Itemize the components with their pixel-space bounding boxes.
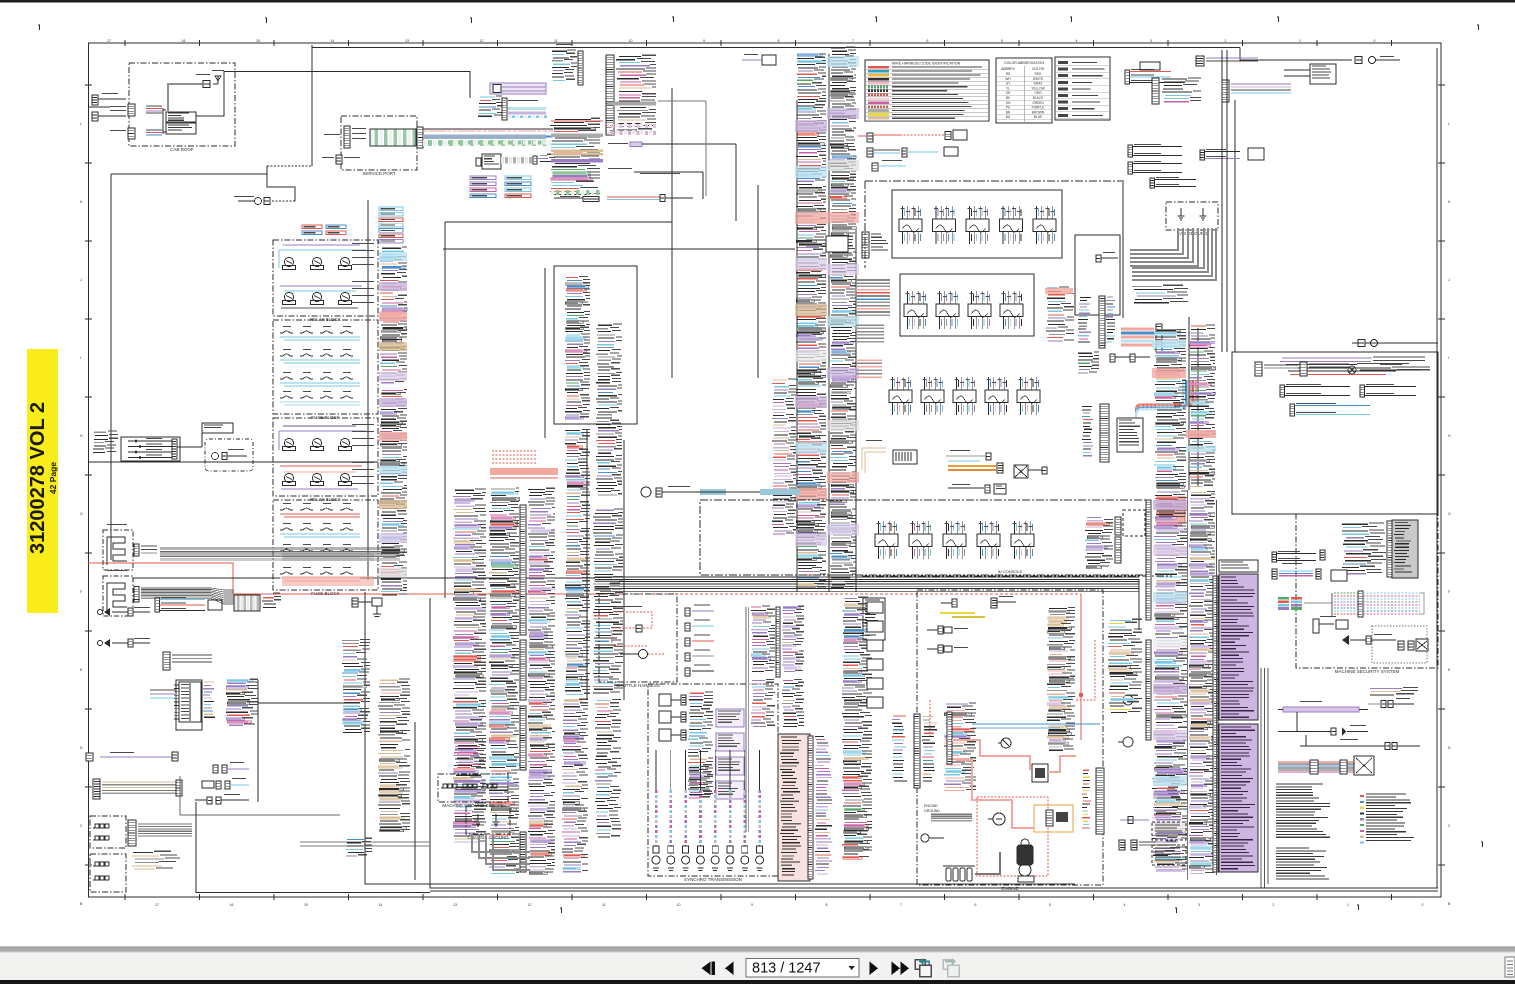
harness column A lower: [457, 744, 484, 767]
toolbar last-page button: [892, 962, 910, 976]
main column 2 spine right: [855, 230, 857, 592]
connector CONN3 service port: [324, 126, 366, 148]
svg-text:C: C: [80, 824, 83, 828]
svg-text:1: 1: [1299, 39, 1301, 43]
relay K4: [283, 292, 296, 304]
wire top-right drop and connector: [1240, 48, 1400, 64]
connector pairs right: [1110, 354, 1150, 362]
svg-text:WH: WH: [1005, 77, 1011, 81]
svg-text:8: 8: [826, 903, 828, 907]
fuse row 6: [280, 523, 360, 537]
main column 2 spine left: [828, 54, 830, 592]
ground strap box 1 left: [90, 816, 126, 848]
wire bottom long route b: [430, 598, 1078, 888]
purple panel upper: [1219, 574, 1258, 720]
connector spine column B: [520, 505, 526, 872]
connector row right box2: [1280, 384, 1416, 397]
diode to ground below fuse: [352, 598, 382, 617]
small rows bottom-left: [132, 851, 180, 869]
wire cross run c: [88, 461, 378, 463]
console region dash-dot box: [700, 500, 1150, 575]
junction block bottom-left: [174, 682, 201, 722]
radio antenna connector: [196, 74, 210, 88]
yellow wire pair engine: [940, 613, 985, 617]
purple panel pin text: [1221, 577, 1255, 869]
connector CONN19: [872, 160, 906, 171]
svg-text:10: 10: [629, 39, 633, 43]
connector bar A: [134, 544, 157, 556]
fuse row 7: [280, 544, 360, 558]
central top column: [550, 118, 600, 198]
connector cluster top-right a: [1125, 62, 1171, 84]
wire row y731 right: [1278, 712, 1368, 736]
connector bar B: [134, 590, 139, 602]
toolbar prev-page button: [725, 962, 734, 976]
right column divider verticals: [1188, 490, 1217, 880]
temp sender: [1118, 737, 1133, 747]
svg-text:J: J: [80, 278, 82, 282]
svg-text:RD: RD: [1006, 72, 1011, 76]
console out cluster: [1085, 510, 1145, 568]
wire right box run: [1360, 364, 1420, 370]
cab roof bundle 1: [146, 106, 162, 113]
connector CONN2 cab roof: [110, 128, 135, 139]
svg-text:SYNCHRO TRANSMISSION: SYNCHRO TRANSMISSION: [684, 877, 742, 882]
security dotted runs: [1363, 593, 1424, 614]
purple panel header: [1219, 560, 1258, 572]
harness bundle to row2: [856, 280, 890, 315]
relay block 1 cyan bus: [279, 245, 366, 268]
wire vertical x258: [257, 680, 259, 802]
engine salmon route 2: [956, 760, 1034, 828]
connector bar tall a: [1078, 296, 1115, 348]
svg-text:FUSE BLOCK: FUSE BLOCK: [311, 415, 340, 420]
wire center vertical c: [757, 185, 759, 378]
svg-text:9: 9: [751, 903, 753, 907]
svg-text:D: D: [1448, 746, 1451, 750]
diagnostic plug symbol: [234, 196, 270, 205]
pink panel main: [778, 734, 810, 881]
relay block 2 purple bus: [279, 426, 366, 450]
harness column fuse-out lower: [380, 389, 407, 595]
gray hatch bundle ecu: [501, 154, 556, 164]
gray wire right from block: [658, 101, 706, 196]
fuse row 4: [280, 391, 360, 405]
wire vertical x624: [623, 440, 625, 700]
svg-text:7: 7: [900, 903, 902, 907]
wire left border feed: [88, 106, 110, 108]
connector bar harness left: [1082, 404, 1109, 462]
harness column D2: [593, 509, 623, 693]
connector unit bl1: [213, 762, 249, 773]
chassis ground studs: [475, 814, 500, 826]
connector cluster top-right b: [1152, 78, 1291, 104]
pink panel spine: [808, 736, 813, 879]
relay block 2 out rows: [352, 424, 374, 484]
in-console label line: [862, 569, 1172, 576]
connector block mid-high: [806, 236, 848, 252]
wire vertical x637: [636, 266, 638, 424]
toolbar page number box: [746, 959, 859, 978]
svg-text:RED: RED: [1035, 72, 1042, 76]
wire left horizontal y174: [111, 173, 267, 175]
purple unit right upper: [1368, 698, 1414, 708]
glow plug battery row: [943, 866, 975, 881]
switch row 3: [889, 377, 1040, 415]
svg-text:GREEN: GREEN: [1032, 101, 1044, 105]
svg-text:BN: BN: [1006, 110, 1011, 114]
starter motor dark: [1017, 839, 1033, 865]
wire rows left of bar: [1045, 287, 1074, 341]
lamp block left: [150, 680, 202, 730]
svg-text:PU: PU: [1006, 106, 1011, 110]
small cluster below right block: [608, 142, 736, 221]
synchro square unit 1: [659, 694, 686, 706]
connector small pair right: [1150, 177, 1196, 188]
synchro square unit 2: [659, 711, 686, 723]
security small blocks: [1398, 639, 1428, 651]
wire cab roof to zone drop: [196, 72, 470, 117]
connector row right mid2: [1200, 148, 1264, 160]
right column A patches: [1153, 500, 1187, 832]
connector CONN17 with wires: [858, 130, 967, 142]
svg-text:B: B: [1448, 902, 1451, 906]
resistor block left: [163, 652, 212, 670]
svg-text:16: 16: [230, 903, 234, 907]
chassis ground box: [466, 806, 510, 840]
fuse block 2 enclosure: [273, 500, 378, 596]
battery cable gray: [975, 852, 1000, 874]
relay K1: [283, 257, 296, 269]
relay K3: [339, 257, 352, 269]
svg-text:I: I: [1448, 356, 1449, 360]
red cyan pair bottom: [607, 195, 693, 202]
svg-text:L: L: [80, 122, 82, 126]
wire vertical x415: [414, 722, 416, 880]
svg-text:9: 9: [703, 39, 705, 43]
svg-text:7: 7: [852, 39, 854, 43]
wire vertical x746: [746, 607, 749, 832]
svg-text:PURPLE: PURPLE: [1032, 106, 1045, 110]
svg-text:K: K: [80, 200, 83, 204]
svg-text:RELAY BLOCK: RELAY BLOCK: [310, 497, 341, 502]
red frame box colA: [1157, 497, 1185, 523]
horn symbol 1: [98, 607, 151, 616]
svg-text:13: 13: [405, 39, 409, 43]
synchro pin tables: [716, 709, 744, 799]
wire zone vertical x312: [311, 45, 313, 166]
engine red dotted route: [930, 640, 1095, 736]
relay block 1 purple bus: [280, 286, 362, 308]
toolbar next-page button: [870, 962, 879, 976]
svg-text:4: 4: [1076, 39, 1078, 43]
ground feed rows: [1132, 285, 1188, 303]
flasher symbol with wire: [641, 486, 726, 497]
connector block top-center right: [606, 55, 656, 135]
wire cluster y169: [608, 168, 703, 199]
ECU box top-center: [476, 154, 501, 169]
service port right connector: [417, 127, 423, 148]
relay block 1 out rows: [352, 243, 374, 303]
svg-text:E: E: [80, 668, 83, 672]
teal wire segment mid: [700, 489, 800, 495]
harness column B right half: [528, 488, 555, 874]
cab ground enclosure: [1166, 202, 1218, 236]
switch row 2 frame: [900, 274, 1034, 336]
relay K2: [311, 257, 324, 269]
fuse row 1: [280, 326, 360, 340]
synchro sensor bank: [652, 750, 764, 871]
wire right long drop: [1234, 100, 1236, 352]
svg-text:H: H: [80, 434, 83, 438]
device cluster right upper: [1284, 64, 1336, 84]
synchro square unit 3: [659, 729, 686, 741]
engine ground label: [924, 804, 940, 813]
wire rows below bar: [1078, 352, 1099, 373]
right side enclosure box: [1232, 352, 1438, 514]
svg-text:14: 14: [379, 903, 383, 907]
svg-text:ENGINE: ENGINE: [924, 804, 938, 808]
stepped switch box B: [103, 570, 133, 616]
legend wire color table: [865, 60, 989, 121]
shuttle red dotted route: [612, 606, 652, 646]
machine ground straps box: [438, 774, 508, 808]
twisted pair harness bend: [1136, 380, 1196, 429]
main column 1 spine: [796, 100, 798, 592]
svg-text:B: B: [80, 902, 83, 906]
relay K6: [339, 292, 352, 304]
border zone tick marks: [80, 39, 1451, 907]
relay K11: [311, 473, 324, 485]
shuttle connector rows: [685, 605, 714, 677]
engine red dotted enclosure: [977, 797, 1048, 876]
svg-text:OR: OR: [1006, 91, 1011, 95]
connector cluster rm1: [1272, 550, 1325, 562]
svg-text:C: C: [1448, 824, 1451, 828]
purple wire engine right: [1120, 767, 1180, 824]
switch row 4 console: [875, 521, 1034, 559]
connector CONN15 cluster: [478, 96, 547, 120]
connector CONN4 mid-left: [155, 597, 222, 612]
svg-text:MACHINE SECURITY SYSTEM: MACHINE SECURITY SYSTEM: [1335, 669, 1400, 674]
service port enclosure box: [341, 116, 417, 176]
svg-text:RELAY BLOCK: RELAY BLOCK: [310, 317, 341, 322]
svg-text:5: 5: [1001, 39, 1003, 43]
connector near border left: [92, 93, 126, 121]
harness column bl-right: [378, 679, 410, 832]
security keypad: [1313, 616, 1348, 633]
fuse row 3: [280, 372, 360, 386]
connector cluster rm2: [1272, 563, 1347, 581]
relay K9: [339, 438, 352, 450]
svg-text:8: 8: [778, 39, 780, 43]
svg-text:YELLOW: YELLOW: [1031, 86, 1044, 90]
synchro connector rows: [688, 692, 713, 795]
harness column D: [596, 324, 622, 495]
svg-text:F: F: [80, 590, 82, 594]
orange harness cluster: [946, 450, 1003, 473]
svg-text:0: 0: [1374, 39, 1376, 43]
shuttle enclosure box: [599, 594, 677, 688]
conn bar left of colA: [1146, 500, 1151, 740]
relay K12: [339, 473, 352, 485]
wire left border long vertical: [110, 174, 112, 560]
legend symbol table: [1055, 57, 1110, 120]
fuse row 5: [280, 503, 360, 517]
wire cross run b: [443, 248, 795, 250]
service port lower connector: [322, 155, 360, 164]
xbox component mid: [1014, 465, 1047, 478]
engine small unit 2: [927, 645, 968, 653]
connector unit bl2: [202, 778, 249, 789]
svg-text:42 Page: 42 Page: [48, 462, 58, 494]
toolbar view-mode icon inactive: [943, 958, 959, 976]
svg-text:G: G: [80, 512, 83, 516]
purple wire run bottom-left: [86, 752, 178, 761]
relay K7: [283, 438, 296, 450]
svg-text:0: 0: [1422, 903, 1424, 907]
ground strap box 2 left: [90, 854, 126, 892]
volume label yellow tab: [27, 349, 58, 613]
svg-text:MACHINE GROUND STRAPS: MACHINE GROUND STRAPS: [442, 803, 503, 808]
notes text block right lower: [1276, 848, 1329, 879]
component stack column: [842, 597, 872, 859]
fuse row 2: [280, 349, 360, 363]
rows right of junction block: [203, 682, 215, 717]
switch row 1 upper: [899, 206, 1056, 244]
relay K8: [311, 438, 324, 450]
wire mid vertical a: [444, 222, 446, 598]
connector CONN13 block: [552, 44, 583, 85]
connector unit bl3: [195, 794, 249, 804]
engine mid column: [1047, 607, 1075, 750]
cab roof junction block: [166, 112, 196, 134]
wire list table right: [1360, 794, 1414, 844]
harness column C mid: [565, 429, 590, 694]
svg-text:GRAY: GRAY: [1034, 82, 1044, 86]
svg-text:CAB ROOF: CAB ROOF: [170, 147, 194, 152]
central column bottom connector: [560, 196, 599, 202]
gray band right block: [607, 102, 656, 106]
wire console trunk bus: [595, 577, 1139, 630]
service port hatched block: [370, 129, 416, 146]
connector CONN1 cab roof: [110, 104, 135, 116]
switch row 1 frame: [892, 190, 1062, 258]
connector bar ground left: [128, 820, 136, 846]
service harness bundle right: [423, 129, 553, 146]
svg-text:BLACK: BLACK: [1033, 96, 1044, 100]
fuel solenoid box: [1034, 805, 1073, 832]
wire vertical x196 low: [196, 802, 430, 893]
ground wire loops gray: [1130, 228, 1216, 280]
svg-text:6: 6: [975, 903, 977, 907]
wire horizontal y815: [180, 776, 340, 815]
wire center-left vertical route: [367, 200, 369, 580]
connector quad rows left: [121, 437, 180, 461]
service harness thick bands: [423, 131, 547, 145]
svg-text:D: D: [80, 746, 83, 750]
connector bundle row right: [1278, 756, 1374, 775]
wire top center vertical: [671, 88, 673, 378]
ground stud cab 1: [1178, 208, 1185, 220]
harness column fuse-out upper: [380, 247, 407, 383]
harness column below fuse: [342, 639, 370, 732]
harness bundle to row3: [856, 360, 882, 377]
right column dashed boxes bottom: [1152, 822, 1186, 865]
engine left rows block: [944, 703, 976, 791]
shuttle circle symbol: [620, 650, 664, 659]
svg-text:WIRE HARNESS CODE IDENTIFICATI: WIRE HARNESS CODE IDENTIFICATION: [892, 62, 961, 66]
engine harness spine: [1082, 768, 1104, 834]
svg-text:WHITE: WHITE: [1033, 77, 1043, 81]
connector row right box3: [1290, 403, 1370, 416]
svg-text:15: 15: [304, 903, 308, 907]
harness column fuse-out patches2: [379, 398, 407, 577]
wire tag column B top: [470, 176, 496, 198]
security ecm block: [1387, 520, 1418, 578]
wire stepped dotted service: [267, 166, 312, 201]
harness column C lower: [562, 699, 588, 872]
svg-text:GROUND: GROUND: [924, 809, 940, 813]
branch cluster right of column: [862, 232, 888, 258]
toolbar first-page button: [702, 962, 715, 976]
wire verticals right pair: [1123, 50, 1227, 490]
ground bar cluster bc: [892, 714, 937, 788]
svg-text:14: 14: [331, 39, 335, 43]
fuse block 1 enclosure: [273, 320, 378, 420]
horn symbol 2: [98, 638, 151, 647]
notes text block right: [1276, 784, 1330, 837]
relay block 2 red bus: [280, 466, 362, 489]
toolbar view-mode icon active: [915, 958, 931, 976]
engine ground stud circle: [921, 834, 944, 842]
svg-text:13: 13: [453, 903, 457, 907]
engine top connector: [941, 596, 1016, 608]
svg-text:12: 12: [528, 903, 532, 907]
toolbar background: [0, 953, 1515, 984]
svg-text:YL: YL: [1006, 86, 1010, 90]
small purple node top: [742, 54, 776, 65]
column C enclosure: [554, 266, 637, 424]
legend abbreviation table: [996, 58, 1052, 123]
small cluster below fuse col: [346, 838, 372, 856]
svg-text:SERVICE PORT: SERVICE PORT: [362, 171, 396, 176]
harness column A: [453, 489, 486, 842]
oil pressure sender: [1118, 695, 1133, 705]
junction box right of rows: [1075, 235, 1120, 315]
svg-text:IN CONSOLE: IN CONSOLE: [998, 569, 1023, 574]
svg-text:1: 1: [1347, 903, 1349, 907]
svg-text:BROWN: BROWN: [1032, 110, 1045, 114]
right column B red band: [1186, 430, 1216, 452]
wire vertical x587: [586, 430, 588, 700]
main harness column 1: [796, 54, 826, 588]
security tag grid: [1278, 593, 1332, 616]
engine small unit 1: [927, 626, 968, 634]
svg-text:3: 3: [1150, 39, 1152, 43]
wire horizontal y703: [258, 702, 345, 704]
svg-text:813 / 1247: 813 / 1247: [752, 961, 821, 977]
columns above pink panel: [751, 606, 804, 677]
harness column fuse-out colored patches: [379, 252, 407, 381]
right column A red patch: [1152, 340, 1186, 378]
relay block 1 enclosure: [273, 240, 378, 322]
connector tan bundle bottom-left: [93, 779, 182, 799]
svg-text:4: 4: [1124, 903, 1126, 907]
red feed cluster mid-left: [490, 451, 558, 478]
long gray bundle left: [160, 548, 400, 560]
svg-text:12: 12: [480, 39, 484, 43]
